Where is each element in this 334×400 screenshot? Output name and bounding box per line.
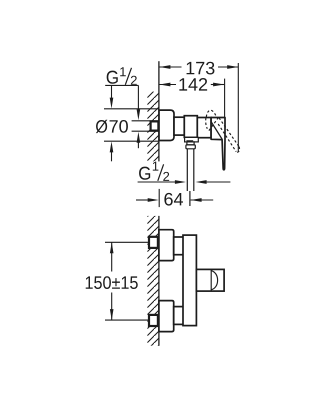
upper union square in wall [149,237,158,248]
dimension 150±15 down arrow [110,309,114,320]
extension line right of 173 [237,63,239,151]
dimension 150±15 text [86,276,138,289]
Ø70 extension line bottom [104,140,159,142]
valve body (side view) [184,116,197,138]
lever underside diagonal [211,122,222,140]
dashed lever grip tip arc [236,147,239,153]
upper union nut (plan) [174,237,184,255]
extension line upper connection [105,241,155,243]
inlet nipple square in wall [151,121,159,130]
lever handle (solid, side view) [211,118,225,170]
body bar (plan) [183,235,196,326]
lower union nut (plan) [174,307,184,325]
dimension 150±15 line upper segment [111,242,113,271]
outlet pipe centre extension [189,191,191,206]
Ø70 lower arrow stub [111,152,113,161]
nipple end blob [158,124,162,129]
right counter line of lower G 1/2 [206,181,231,183]
arrow to pipe left [175,180,186,184]
wall face line / extension line to top dims [158,61,160,161]
lever knob (plan) [196,269,224,291]
outlet neck [187,142,194,145]
fraction slash (lower G 1/2) [158,164,164,181]
dashed lever cap left arc (rotated position) [206,118,208,129]
wall hatching (plan view) [147,216,159,346]
leader line of lower G 1/2 [138,181,176,183]
label G 1/2 (upper) [107,71,118,84]
outlet flange [185,137,199,142]
G1/2 leader arrow to pipe top [137,85,139,110]
dimension 64 right arrow [191,198,202,202]
escutcheon (side view) [159,110,174,140]
dashed rotated cap right edge [209,117,219,130]
lower escutcheon (plan) [159,301,174,332]
dimension 142 line [159,84,176,86]
dashed lever cap hump (rotated position) [206,110,216,117]
inlet pipe behind wall (top line) [132,120,159,122]
dimension 173 line [159,66,181,68]
wall face line (plan view) [158,216,160,346]
inlet pipe behind wall (bottom line) [132,130,159,132]
underline of upper G 1/2 [105,84,138,86]
dimension 64 right line [191,199,214,201]
wall face extension line for 64 [158,189,160,207]
dashed lever grip lower edge [218,124,236,152]
dimension 64 left arrow [148,198,159,202]
dimension 142 left arrow [159,83,170,87]
union nut (side view) [174,117,184,135]
Ø70 upper arrow stub [111,85,113,99]
dimension 64 text [164,193,183,206]
wall hatching (side view) [147,92,159,162]
dimension 64 left line [136,199,149,201]
knob chord line [210,269,212,291]
outlet chamfer wedge [186,140,193,142]
upper escutcheon (plan) [159,230,174,261]
Ø70 extension line top [104,108,159,110]
fraction slash (upper G 1/2) [125,68,131,85]
outlet pipe right line [193,149,195,191]
dimension 150±15 up arrow [110,242,114,253]
lower union square in wall [149,315,158,326]
inlet pipe lower arrow stub [137,143,139,149]
cartridge cap (side view) [197,118,211,138]
knob arc [211,271,218,290]
extension line lower connection [105,319,155,321]
dimension 142 text [179,78,207,91]
dimension 173 right arrow [227,65,238,69]
label G 1/2 (lower) [139,167,150,180]
outlet nut [186,145,195,149]
dashed lever grip upper edge [219,118,239,147]
outlet pipe left line [186,149,188,191]
arrow to pipe right [196,180,207,184]
Ø 70 text [96,120,108,133]
dimension 142 right arrow [213,83,224,87]
dimension 150±15 line lower segment [111,293,113,321]
dimension 173 left arrow [159,65,170,69]
extension line right of 142 [224,79,226,140]
dimension 173 text [187,62,215,75]
